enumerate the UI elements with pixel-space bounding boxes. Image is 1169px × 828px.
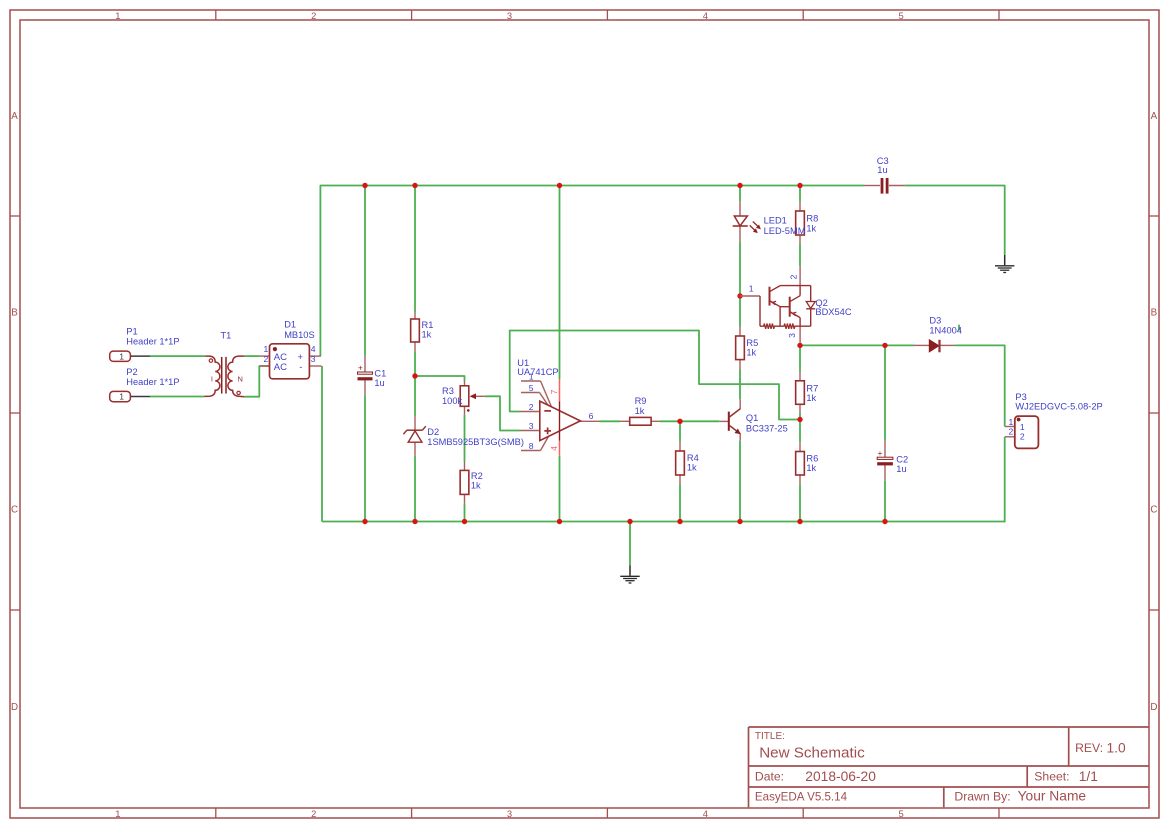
svg-text:Your Name: Your Name <box>1018 789 1087 804</box>
diode D3 1N4004 <box>914 316 962 353</box>
wire node to R5 top <box>739 296 741 327</box>
svg-text:R7: R7 <box>806 383 818 393</box>
svg-text:UA741CP: UA741CP <box>517 367 558 377</box>
svg-text:8: 8 <box>529 441 534 451</box>
svg-text:N: N <box>237 374 242 383</box>
svg-text:C2: C2 <box>896 454 908 464</box>
wire T1 secondary top to D1 pin1 <box>244 355 260 357</box>
title block Date 2018-06-20 <box>755 769 876 784</box>
svg-text:1u: 1u <box>374 378 384 388</box>
svg-text:1: 1 <box>749 284 754 294</box>
bridge rectifier D1 MB10S <box>260 320 322 379</box>
svg-text:EasyEDA V5.5.14: EasyEDA V5.5.14 <box>755 790 848 803</box>
svg-text:R6: R6 <box>806 453 818 463</box>
resistor R2 1k <box>460 462 483 504</box>
svg-text:3: 3 <box>787 333 797 338</box>
svg-text:5: 5 <box>898 10 903 21</box>
svg-text:R5: R5 <box>746 338 758 348</box>
zener diode D2 1SMB5925BT3G <box>403 416 524 456</box>
wire op-amp V- pin4 to rail <box>559 456 561 523</box>
svg-text:D3: D3 <box>929 316 941 326</box>
wire R8 branch from rail <box>799 185 801 202</box>
connector P1 Header 1*1P <box>110 327 180 362</box>
resistor R7 1k <box>796 372 819 414</box>
svg-text:Date:: Date: <box>755 770 784 784</box>
svg-text:3: 3 <box>507 808 512 819</box>
capacitor C1 1u <box>358 356 387 396</box>
transistor Q2 BDX54C darlington <box>740 266 852 343</box>
svg-text:3: 3 <box>311 354 316 364</box>
ground symbol bottom rail <box>620 565 639 583</box>
svg-text:P1: P1 <box>126 327 137 337</box>
wire C2 branch lower <box>884 481 886 523</box>
resistor R1 1k <box>411 312 434 352</box>
potentiometer R3 100k <box>442 381 485 415</box>
title block TITLE label <box>755 731 785 742</box>
wire junction dots <box>362 183 887 524</box>
wire T1 secondary bottom to D1 pin2 <box>244 366 269 397</box>
svg-text:P3: P3 <box>1015 392 1026 402</box>
wire op-amp V+ pin7 from rail <box>559 185 561 380</box>
svg-text:1u: 1u <box>877 165 887 175</box>
resistor R6 1k <box>796 442 819 484</box>
svg-text:TITLE:: TITLE: <box>755 731 785 742</box>
wire LED1 branch from rail <box>739 185 741 202</box>
svg-text:4: 4 <box>549 446 559 451</box>
svg-text:4: 4 <box>703 808 708 819</box>
title block Sheet 1/1 <box>1034 769 1098 784</box>
wire R9 to Q1 base node <box>659 420 719 422</box>
svg-text:1: 1 <box>1020 422 1025 432</box>
svg-text:2018-06-20: 2018-06-20 <box>805 769 876 784</box>
resistor R9 1k <box>620 396 659 425</box>
svg-text:1u: 1u <box>896 464 906 474</box>
wire P3 pin2 down to bottom rail <box>1004 437 1006 523</box>
wire C1 branch lower <box>364 395 366 522</box>
svg-text:BC337-25: BC337-25 <box>746 424 788 434</box>
wire P1 to T1 <box>150 355 205 357</box>
resistor R4 1k <box>676 442 699 485</box>
svg-text:R8: R8 <box>806 214 818 224</box>
svg-text:R1: R1 <box>422 320 434 330</box>
svg-text:REV:: REV: <box>1075 741 1103 755</box>
wire R3 wiper to op-amp pin3 <box>485 396 521 430</box>
wire op-amp output to R9 <box>600 420 621 422</box>
svg-text:WJ2EDGVC-5.08-2P: WJ2EDGVC-5.08-2P <box>1015 402 1102 412</box>
svg-text:1: 1 <box>115 808 120 819</box>
svg-text:LED-5MM: LED-5MM <box>764 226 806 236</box>
ground symbol below C3 <box>995 255 1014 273</box>
title block grid <box>749 727 1150 807</box>
wire R6 bottom to rail <box>799 484 801 522</box>
svg-text:2: 2 <box>1009 426 1014 436</box>
svg-text:A: A <box>1151 111 1158 122</box>
svg-text:2: 2 <box>311 10 316 21</box>
svg-text:2: 2 <box>789 274 799 279</box>
svg-text:D: D <box>11 702 18 713</box>
transistor Q1 BC337-25 <box>719 399 787 441</box>
svg-text:B: B <box>11 308 18 319</box>
svg-text:MB10S: MB10S <box>284 330 315 340</box>
svg-text:R4: R4 <box>687 453 699 463</box>
svg-text:100k: 100k <box>442 396 463 406</box>
connector P3 WJ2EDGVC-5.08-2P <box>1005 392 1103 448</box>
title block Drawn By Your Name <box>954 789 1086 804</box>
wire C1 branch upper <box>364 185 366 356</box>
svg-text:1: 1 <box>264 344 269 354</box>
svg-text:1N4004: 1N4004 <box>929 326 962 336</box>
ruler column numbers 1-5 top and bottom <box>115 10 903 819</box>
wire R4 to bottom rail <box>679 484 681 522</box>
svg-text:4: 4 <box>703 10 708 21</box>
wire mid output rail Q2 emitter to D3 <box>800 344 914 346</box>
wire node A to R3 top <box>415 376 465 381</box>
svg-text:BDX54C: BDX54C <box>815 307 851 317</box>
wire R1 branch upper <box>414 185 416 312</box>
svg-text:C1: C1 <box>374 368 386 378</box>
svg-text:1: 1 <box>115 10 120 21</box>
wire R4 branch upper <box>679 421 681 441</box>
svg-text:6: 6 <box>589 411 594 421</box>
title block REV 1.0 <box>1075 741 1126 756</box>
svg-text:1: 1 <box>119 351 124 361</box>
wire R2 bottom to rail <box>464 503 466 522</box>
svg-text:1: 1 <box>119 392 124 402</box>
resistor R5 1k <box>736 327 759 370</box>
svg-text:Header 1*1P: Header 1*1P <box>126 337 179 347</box>
svg-text:7: 7 <box>549 389 559 394</box>
svg-text:D: D <box>1150 702 1157 713</box>
svg-text:1k: 1k <box>806 463 816 473</box>
wire feedback node to R6 top <box>799 420 801 443</box>
wire bottom 0V rail <box>322 521 1005 523</box>
wire R7 top from mid rail <box>799 345 801 371</box>
wire top rail right of C3 to ground corner <box>905 186 1005 255</box>
LED1 LED-5MM <box>733 201 806 242</box>
svg-text:1k: 1k <box>422 330 432 340</box>
ruler row letters A-D left and right <box>11 111 1158 713</box>
svg-text:3: 3 <box>529 421 534 431</box>
wire ground branch mid <box>629 522 631 566</box>
wire op-amp pin2 feedback loop <box>510 331 800 420</box>
wire P2 to T1 <box>150 396 204 398</box>
svg-text:1k: 1k <box>806 393 816 403</box>
wire R5 bottom to Q1 collector <box>739 370 741 400</box>
svg-text:1k: 1k <box>471 481 481 491</box>
svg-text:R3: R3 <box>442 386 454 396</box>
svg-text:C: C <box>1150 505 1157 516</box>
svg-text:+: + <box>358 363 363 373</box>
title block title text New Schematic <box>759 745 865 762</box>
wire top V+ rail <box>320 186 864 357</box>
svg-text:2: 2 <box>1020 432 1025 442</box>
svg-text:1k: 1k <box>806 223 816 233</box>
svg-text:1k: 1k <box>687 462 697 472</box>
wire D2 to bottom rail <box>414 456 416 523</box>
svg-text:Q1: Q1 <box>746 413 758 423</box>
svg-text:A: A <box>11 111 18 122</box>
wire R8 to Q2 collector <box>799 244 801 266</box>
wire LED1 to Q2 base node <box>739 242 741 296</box>
svg-text:4: 4 <box>311 344 316 354</box>
transformer T1 <box>205 330 245 396</box>
svg-text:C: C <box>11 505 18 516</box>
svg-text:T1: T1 <box>221 330 232 340</box>
svg-text:D1: D1 <box>284 320 296 330</box>
svg-text:2: 2 <box>311 808 316 819</box>
svg-text:1.0: 1.0 <box>1107 741 1127 756</box>
wire net stub near D3 <box>958 325 960 331</box>
wire R7 bottom to feedback node <box>799 414 801 420</box>
wire Q1 emitter to bottom rail <box>739 441 741 523</box>
svg-text:I: I <box>211 374 213 383</box>
svg-text:LED1: LED1 <box>764 216 787 226</box>
svg-text:1/1: 1/1 <box>1079 769 1098 784</box>
svg-text:2: 2 <box>529 402 534 412</box>
wire D1 pin3 down to bottom rail <box>321 366 323 522</box>
wire D3 to P3 corner <box>955 345 1004 426</box>
svg-text:R9: R9 <box>635 396 647 406</box>
wire R3 bottom to R2 top <box>464 415 466 462</box>
resistor R8 1k <box>796 202 819 244</box>
svg-text:3: 3 <box>507 10 512 21</box>
title block EasyEDA version <box>755 790 848 803</box>
svg-text:Sheet:: Sheet: <box>1034 770 1069 784</box>
svg-text:New Schematic: New Schematic <box>759 745 865 762</box>
wire R1 to D2 segment <box>414 351 416 415</box>
svg-text:P2: P2 <box>126 367 137 377</box>
capacitor C2 1u <box>877 441 908 481</box>
svg-text:D2: D2 <box>427 427 439 437</box>
capacitor C3 1u <box>864 156 905 194</box>
op-amp U1 UA741CP <box>517 358 599 456</box>
svg-text:2: 2 <box>264 354 269 364</box>
svg-text:Drawn By:: Drawn By: <box>954 789 1010 803</box>
svg-text:R2: R2 <box>471 471 483 481</box>
svg-text:5: 5 <box>529 383 534 393</box>
svg-text:1k: 1k <box>746 348 756 358</box>
svg-text:AC: AC <box>274 362 287 373</box>
svg-text:-: - <box>299 362 302 373</box>
connector P2 Header 1*1P <box>110 367 180 402</box>
svg-text:B: B <box>1151 308 1158 319</box>
svg-text:1SMB5925BT3G(SMB): 1SMB5925BT3G(SMB) <box>427 437 524 447</box>
svg-text:5: 5 <box>898 808 903 819</box>
wire C2 branch upper <box>884 345 886 440</box>
svg-text:+: + <box>878 448 883 458</box>
svg-text:Header 1*1P: Header 1*1P <box>126 377 179 387</box>
svg-text:1k: 1k <box>635 406 645 416</box>
